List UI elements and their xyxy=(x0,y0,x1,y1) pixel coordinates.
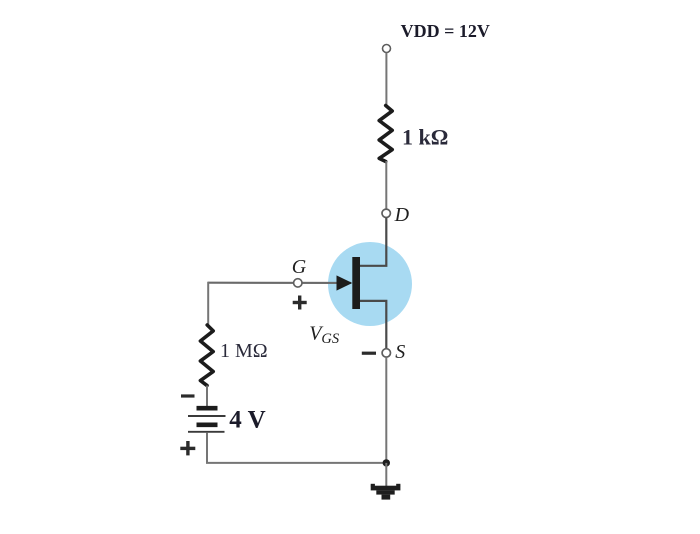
transistor Q1 channel bar xyxy=(352,257,360,309)
wire resistor RG to battery xyxy=(206,386,208,407)
svg-text:D: D xyxy=(394,204,410,226)
wire battery to bottom rail xyxy=(207,433,386,463)
node VDD terminal xyxy=(383,45,391,53)
svg-text:1 MΩ: 1 MΩ xyxy=(220,340,268,362)
node G terminal xyxy=(294,279,302,287)
svg-text:VGS: VGS xyxy=(309,322,340,347)
minus sign battery xyxy=(181,394,195,397)
wire VDD to resistor R_D xyxy=(385,53,387,106)
transistor Q1 highlight circle xyxy=(328,242,412,326)
svg-text:G: G xyxy=(292,256,307,278)
wire gate lead xyxy=(208,282,351,284)
battery V_GG plate 3 short thick xyxy=(197,422,218,427)
plus sign battery xyxy=(180,441,195,455)
svg-text:1 kΩ: 1 kΩ xyxy=(402,125,448,150)
junction dot xyxy=(383,459,390,466)
wire source lead xyxy=(359,301,386,349)
minus sign VGS xyxy=(362,352,376,355)
wire resistor RD to node D xyxy=(385,161,387,210)
svg-text:4 V: 4 V xyxy=(229,406,265,433)
ground symbol xyxy=(371,484,401,500)
wire drain lead xyxy=(359,218,386,266)
svg-text:S: S xyxy=(395,341,405,363)
svg-text:VDD = 12V: VDD = 12V xyxy=(401,21,490,41)
battery V_GG plate 1 short thick xyxy=(197,406,218,411)
wire source to ground junction xyxy=(385,357,387,463)
node D terminal xyxy=(382,209,390,217)
wire left branch vertical down to resistor RG xyxy=(207,282,209,326)
resistor RD 1 kOhm zigzag xyxy=(379,106,392,162)
battery V_GG plate 2 long thin xyxy=(188,415,226,417)
resistor RG 1 MOhm zigzag xyxy=(200,325,213,386)
transistor Q1 gate arrow xyxy=(337,275,353,290)
node S terminal xyxy=(382,349,390,357)
plus sign VGS xyxy=(293,296,307,310)
wire junction to ground xyxy=(385,463,387,486)
battery V_GG plate 4 long thin xyxy=(188,431,225,433)
